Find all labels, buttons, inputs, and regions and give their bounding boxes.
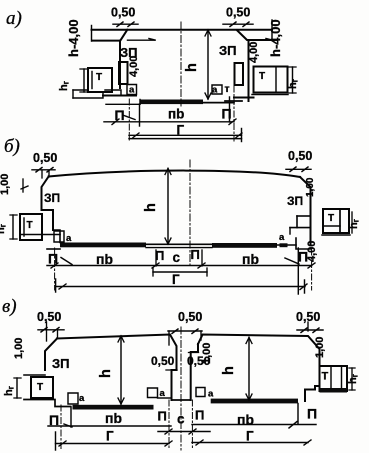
svg-text:Г: Г: [106, 429, 114, 444]
svg-text:1,00: 1,00: [0, 174, 11, 195]
svg-text:П: П: [222, 106, 232, 122]
svg-text:0,50: 0,50: [288, 149, 312, 163]
svg-text:П: П: [49, 412, 59, 428]
svg-text:Т: Т: [259, 71, 265, 82]
svg-text:П: П: [115, 107, 125, 123]
svg-text:ЗП: ЗП: [219, 43, 237, 58]
svg-text:а: а: [79, 393, 85, 404]
svg-text:1,00: 1,00: [314, 337, 326, 358]
svg-text:П: П: [48, 250, 58, 266]
svg-text:4,00: 4,00: [248, 42, 260, 63]
svg-text:Т: Т: [322, 371, 329, 383]
svg-text:П: П: [158, 409, 167, 424]
svg-text:пb: пb: [242, 251, 259, 267]
svg-text:Т: Т: [96, 72, 102, 83]
svg-text:h: h: [98, 369, 114, 378]
svg-text:а: а: [66, 233, 72, 244]
svg-text:Т: Т: [328, 213, 334, 224]
svg-text:1,00: 1,00: [201, 343, 213, 364]
svg-text:в): в): [2, 296, 17, 317]
svg-text:ЗП: ЗП: [52, 356, 70, 371]
svg-text:П: П: [191, 247, 200, 262]
svg-text:hг: hг: [347, 373, 360, 384]
svg-text:h-4,00: h-4,00: [66, 19, 81, 57]
svg-text:Т: Т: [27, 220, 33, 231]
svg-text:1,00: 1,00: [13, 338, 25, 359]
svg-text:Г: Г: [177, 123, 185, 138]
svg-text:П: П: [195, 408, 204, 423]
svg-text:h-4,00: h-4,00: [268, 19, 283, 57]
svg-text:0,50: 0,50: [296, 310, 320, 324]
svg-text:т: т: [225, 83, 230, 95]
svg-text:пb: пb: [237, 412, 254, 428]
svg-text:пb: пb: [168, 107, 184, 122]
svg-text:hг: hг: [58, 80, 71, 91]
svg-text:hг: hг: [0, 223, 8, 234]
svg-text:а: а: [279, 232, 285, 243]
svg-text:П: П: [298, 249, 308, 265]
svg-text:П: П: [155, 248, 164, 263]
svg-text:ЗП: ЗП: [287, 194, 303, 208]
svg-text:а: а: [160, 388, 166, 399]
svg-text:0,50: 0,50: [33, 151, 57, 165]
svg-text:б): б): [4, 136, 20, 157]
svg-text:а: а: [208, 389, 214, 400]
svg-text:с: с: [173, 250, 181, 265]
svg-text:0,50: 0,50: [151, 354, 175, 368]
svg-text:с: с: [177, 412, 185, 427]
svg-text:пb: пb: [105, 410, 122, 426]
svg-text:0,50: 0,50: [37, 310, 61, 324]
svg-text:а: а: [129, 85, 135, 96]
svg-text:4,00: 4,00: [128, 56, 140, 77]
svg-text:0,50: 0,50: [226, 6, 250, 20]
svg-text:пb: пb: [96, 251, 113, 267]
svg-text:а): а): [6, 8, 22, 29]
svg-text:ЗП: ЗП: [44, 191, 60, 205]
svg-text:hг: hг: [287, 78, 300, 89]
svg-text:Т: Т: [37, 382, 43, 393]
svg-text:П: П: [307, 406, 317, 422]
svg-text:а: а: [212, 85, 218, 96]
svg-text:h: h: [221, 366, 237, 375]
svg-text:0,50: 0,50: [111, 6, 135, 20]
svg-text:0,50: 0,50: [178, 310, 202, 324]
svg-text:hг: hг: [3, 385, 16, 396]
svg-text:1,00: 1,00: [305, 177, 316, 197]
svg-text:h: h: [143, 203, 159, 212]
svg-text:Г: Г: [246, 429, 254, 444]
svg-text:h: h: [184, 63, 200, 72]
svg-text:Г: Г: [172, 272, 180, 287]
